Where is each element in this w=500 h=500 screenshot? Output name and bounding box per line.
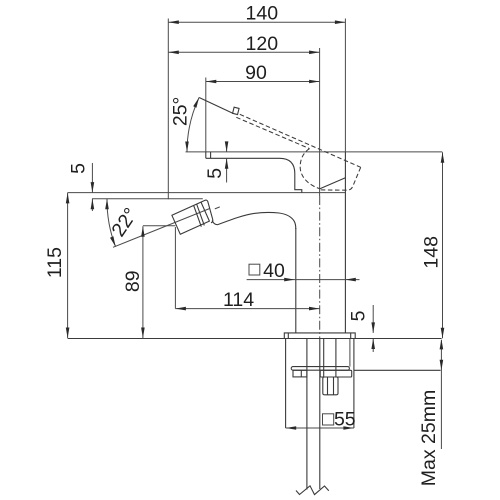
supply pipe right line: [319, 339, 321, 490]
dimension 114: [175, 289, 319, 311]
svg-text:89: 89: [122, 270, 144, 292]
extension line x=319.6 (centerline upper part for 120/90): [319, 48, 321, 196]
spout aerator inner tick: [210, 152, 212, 158]
line B y=198.8 (handle top datum): [92, 198, 203, 200]
handle end cap: [201, 200, 213, 223]
handle cross line 2: [197, 204, 205, 225]
dimension 115: [44, 193, 70, 338]
dashed raised spout second edge: [236, 117, 309, 148]
114 left extension (handle tip): [174, 227, 176, 309]
spout underside: [206, 158, 302, 192]
22deg ray dash beyond handle: [215, 207, 220, 209]
nut inner line 1: [327, 377, 329, 395]
dimension 120: [168, 33, 319, 55]
dimension 148: [420, 152, 444, 338]
body left edge: [295, 228, 297, 333]
svg-text:115: 115: [44, 247, 66, 278]
svg-text:5: 5: [204, 168, 226, 179]
dimension 89: [122, 226, 145, 338]
angle 22 arc: [105, 199, 142, 247]
svg-text:148: 148: [420, 236, 442, 269]
washer right block: [320, 370, 352, 377]
dimension 5 (spout tip): [204, 141, 229, 182]
ref line y=151.9 (spout top datum, extends to 148 dim): [186, 151, 443, 153]
dashed raised spout tip face: [320, 167, 361, 190]
shank right line: [335, 339, 337, 378]
extension line x=168 (left, for 140/120): [167, 19, 169, 200]
flange tick left: [287, 333, 289, 339]
dimension 5 (flange height, right): [348, 305, 376, 352]
flange: [284, 333, 355, 339]
flange tick right: [350, 333, 352, 339]
supply pipe left line: [306, 339, 308, 490]
svg-text:40: 40: [263, 260, 285, 282]
25deg ray (solid part): [199, 98, 233, 114]
svg-text:5: 5: [348, 310, 370, 321]
22deg ray through handle: [113, 209, 209, 248]
dimension 140: [168, 3, 345, 25]
deck bottom line: [354, 369, 441, 371]
dimension square55: [286, 409, 356, 431]
dashed raised spout underside arc: [300, 149, 319, 189]
spout tip face: [205, 152, 207, 158]
svg-text:5: 5: [67, 163, 89, 174]
washer right hose line: [349, 339, 351, 367]
svg-text:120: 120: [246, 33, 279, 55]
mounting nut: [323, 377, 338, 395]
body dome profile: [218, 212, 296, 229]
line A y=192.6 (115 datum): [68, 192, 346, 194]
angle 25 arc: [170, 97, 200, 152]
handle grip (parallelogram): [172, 202, 210, 234]
body right edge: [344, 152, 346, 333]
svg-text:25°: 25°: [170, 97, 192, 127]
handle cross line 1: [194, 205, 202, 226]
dimension square40: [247, 260, 360, 282]
spout rear crease: [320, 178, 346, 189]
svg-text:55: 55: [334, 409, 356, 431]
svg-text:114: 114: [223, 289, 254, 311]
svg-text:Max 25mm: Max 25mm: [418, 390, 440, 486]
button on spout (raised position): [233, 107, 239, 114]
svg-text:90: 90: [245, 62, 267, 84]
pipe break squiggle: [296, 486, 329, 495]
washer left block inner line: [300, 370, 302, 377]
shank left line: [323, 339, 325, 378]
deck top line: [68, 338, 442, 340]
89 upper extension line y=225.8: [143, 225, 176, 227]
below-deck mounting box: [285, 339, 287, 429]
dimension 5 (left, handle clearance): [67, 163, 94, 211]
extension line x=345 (right, for 140 / body right edge extension): [344, 19, 346, 152]
centerline (dash-dot) of body: [319, 196, 321, 339]
extension line x=205.8 upper (for 90, down to spout tip): [205, 78, 207, 152]
nut inner line 2: [333, 377, 335, 395]
washer plate: [291, 367, 349, 371]
handle neck to body: [212, 220, 217, 224]
dimension Max 25mm: [418, 339, 443, 486]
dimension 90: [206, 62, 320, 84]
washer left block: [293, 370, 307, 377]
dashed raised spout top edge: [240, 114, 361, 167]
svg-text:140: 140: [246, 3, 279, 25]
